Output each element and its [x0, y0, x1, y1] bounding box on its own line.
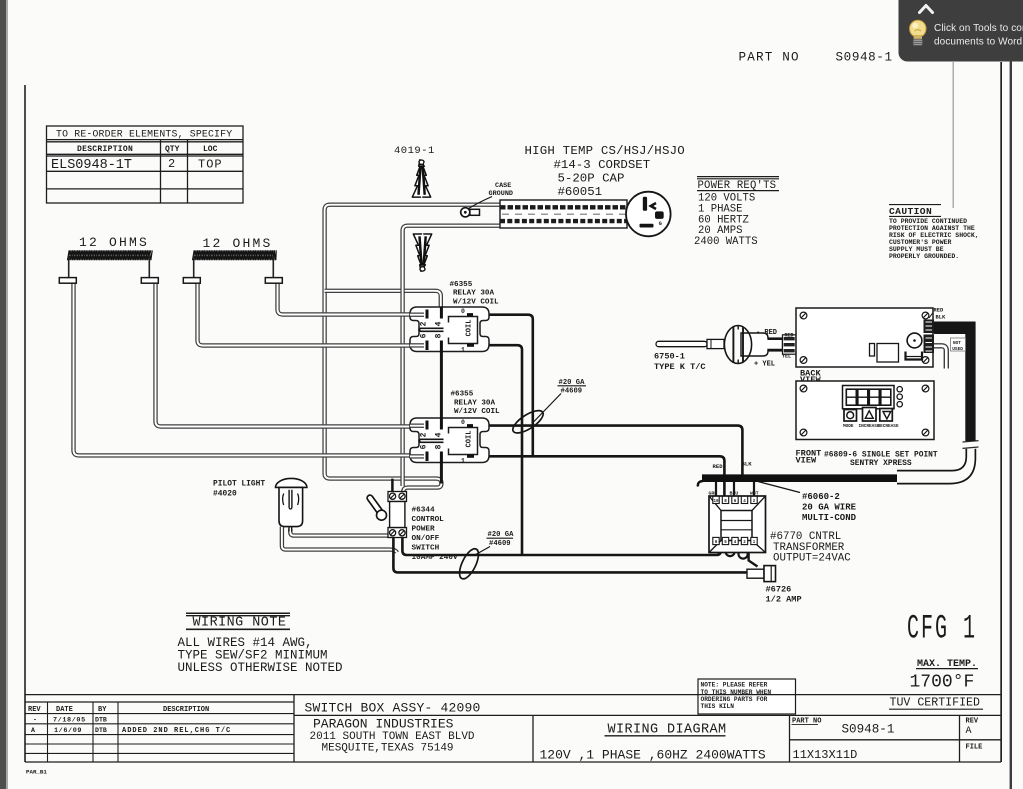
- plug 5-20P cap: [626, 192, 671, 237]
- wire transformer WHT stub: [753, 481, 755, 497]
- svg-text:120V ,1 PHASE ,60HZ 2400WATTS: 120V ,1 PHASE ,60HZ 2400WATTS: [540, 747, 766, 762]
- front panel button MODE: [844, 410, 857, 422]
- wire slack loop A: [510, 406, 547, 437]
- wire W1 cord hot conductor / neutral bus: [325, 205, 500, 493]
- label 6770 CNTRL TRANSFORMER: [770, 531, 851, 564]
- strain relief spike 4019-1 lower (inverted): [413, 233, 431, 271]
- label RED BLK at controller: [929, 307, 946, 320]
- terminal tab R1 left: [59, 256, 76, 283]
- front panel button INCREASE: [863, 408, 877, 422]
- svg-text:BLU: BLU: [730, 491, 739, 497]
- terminal tab R2 right: [265, 256, 282, 283]
- terminal tab R2 left: [183, 256, 200, 283]
- wire W1 branch to relay K1 pin 4: [325, 291, 441, 308]
- svg-text:CASE: CASE: [495, 182, 511, 190]
- svg-text:10: 10: [713, 500, 719, 504]
- svg-text:YEL: YEL: [782, 354, 791, 360]
- wire pilot light left lead: [282, 527, 397, 553]
- revision table text: [28, 706, 231, 735]
- svg-text:RED: RED: [934, 307, 944, 313]
- svg-text:NOTE: PLEASE REFER: NOTE: PLEASE REFER: [701, 682, 768, 689]
- svg-text:RED: RED: [785, 333, 794, 339]
- wire switch bottom-right to transformer: [402, 537, 720, 555]
- strain relief spike 4019-1 upper: [412, 160, 430, 198]
- wire switch top-left feed: [391, 479, 394, 492]
- svg-text:2: 2: [168, 157, 175, 171]
- svg-text:#6355: #6355: [450, 281, 473, 289]
- label TC wires: [754, 329, 802, 368]
- wire relay K1 coil-1 down: [474, 345, 523, 554]
- label relay K2: [451, 391, 501, 417]
- svg-text:NOT: NOT: [953, 341, 961, 346]
- wire element R1 right lead: [156, 284, 413, 427]
- back panel screw TL: [800, 312, 807, 319]
- front panel LEDs: [897, 387, 902, 407]
- svg-text:Click on Tools to cor: Click on Tools to cor: [934, 23, 1023, 34]
- label cordset description: [525, 144, 685, 199]
- svg-text:+ YEL: + YEL: [754, 360, 775, 368]
- svg-text:CAUTION: CAUTION: [889, 206, 932, 217]
- front panel display: [843, 386, 895, 409]
- svg-text:RED: RED: [713, 463, 724, 470]
- wire relay K2 pin8 down to junction: [440, 461, 443, 484]
- resistor element R1 12 OHMS zigzag: [68, 250, 153, 260]
- svg-text:- RED: - RED: [756, 329, 777, 337]
- label REV A FILE: [966, 717, 983, 751]
- note box refer number: [698, 679, 796, 714]
- svg-text:PARAGON INDUSTRIES: PARAGON INDUSTRIES: [313, 716, 454, 731]
- svg-text:DATE: DATE: [56, 706, 73, 714]
- label POWER REQTS block: [694, 177, 779, 248]
- svg-text:1/2 AMP: 1/2 AMP: [766, 595, 802, 605]
- svg-text:RISK OF ELECTRIC SHOCK,: RISK OF ELECTRIC SHOCK,: [889, 232, 979, 239]
- svg-text:DTB: DTB: [95, 727, 107, 734]
- svg-text:GROUND: GROUND: [489, 190, 513, 198]
- svg-text:#14-3 CORDSET: #14-3 CORDSET: [554, 158, 651, 172]
- svg-text:#6355: #6355: [451, 391, 474, 399]
- svg-text:CUSTOMER'S POWER: CUSTOMER'S POWER: [889, 239, 952, 246]
- page right edge line: [1010, 54, 1012, 789]
- label PART NO header: [739, 50, 893, 64]
- svg-text:DTB: DTB: [95, 716, 107, 723]
- frame left border: [24, 85, 26, 762]
- wire W2 cord second conductor: [403, 226, 500, 486]
- svg-text:REV: REV: [28, 706, 41, 714]
- svg-text:DESCRIPTION: DESCRIPTION: [163, 706, 209, 714]
- svg-text:2011 SOUTH TOWN EAST BLVD: 2011 SOUTH TOWN EAST BLVD: [310, 731, 475, 743]
- wire stub into relay K2 pin 2: [410, 424, 424, 428]
- pilot light 4020: [276, 478, 307, 531]
- svg-text:POWER REQ'TS: POWER REQ'TS: [698, 180, 777, 192]
- svg-text:WIRING NOTE: WIRING NOTE: [193, 616, 287, 631]
- svg-text:4019-1: 4019-1: [394, 145, 435, 157]
- cable solid horizontal bundle: [702, 474, 897, 482]
- wire relay K2 coil-1 to transformer RED: [468, 456, 724, 497]
- svg-text:#4609: #4609: [561, 387, 583, 395]
- wire transformer GRN stub: [715, 481, 717, 497]
- label 6809-6 SINGLE SET POINT: [824, 450, 938, 467]
- svg-text:PART NO: PART NO: [739, 50, 800, 64]
- svg-text:S0948-1: S0948-1: [842, 722, 895, 736]
- front panel button labels: [843, 424, 899, 429]
- svg-text:10AMP 240V: 10AMP 240V: [412, 554, 459, 562]
- svg-text:RELAY 30A: RELAY 30A: [454, 399, 495, 407]
- svg-text:PROTECTION AGAINST THE: PROTECTION AGAINST THE: [889, 225, 975, 232]
- front panel button DECREASE: [880, 409, 893, 422]
- svg-text:ORDERING PARTS FOR: ORDERING PARTS FOR: [701, 696, 768, 703]
- svg-text:MODE: MODE: [843, 424, 854, 429]
- label WIRING NOTE block: [178, 613, 343, 675]
- svg-text:A: A: [966, 726, 972, 737]
- switch 6344 body: [388, 492, 407, 538]
- svg-text:#6344: #6344: [412, 507, 435, 515]
- svg-text:REV: REV: [966, 717, 979, 725]
- NOT USED tag: [951, 338, 966, 352]
- svg-text:S0948-1: S0948-1: [836, 50, 893, 64]
- svg-text:GRN: GRN: [709, 491, 718, 497]
- label wiring diagram: [605, 723, 727, 738]
- svg-text:6750-1: 6750-1: [654, 352, 685, 362]
- controller front view panel: [796, 381, 934, 440]
- svg-text:1700°F: 1700°F: [910, 672, 975, 692]
- wire element R2 right lead: [278, 284, 413, 315]
- wire transformer BLU stub: [733, 481, 735, 497]
- svg-text:#60051: #60051: [558, 185, 603, 199]
- label TUV CERTIFIED: [889, 697, 983, 710]
- svg-text:documents to Word: documents to Word: [934, 37, 1022, 48]
- label MAX TEMP: [916, 659, 978, 670]
- back panel terminal strip lower: [924, 335, 935, 354]
- svg-text:PAR_B1: PAR_B1: [26, 768, 47, 775]
- back panel piezo circle: [906, 333, 923, 359]
- wire switch bottom-left to fuse line: [393, 537, 747, 572]
- svg-text:1/6/09: 1/6/09: [54, 727, 82, 735]
- wire transformer pin to fuse: [749, 545, 758, 567]
- svg-text:HIGH TEMP CS/HSJ/HSJO: HIGH TEMP CS/HSJ/HSJO: [525, 144, 685, 158]
- label pilot light: [213, 479, 265, 498]
- back panel relay box: [877, 344, 899, 363]
- label paragon industries: [310, 716, 475, 754]
- title block lines: [25, 695, 1001, 762]
- switch screw BL: [390, 530, 396, 536]
- wire stub into relay K1 pin 2: [410, 313, 424, 317]
- svg-text:CFG 1: CFG 1: [907, 611, 977, 649]
- resistor element R2 12 OHMS zigzag: [193, 250, 277, 260]
- svg-text:CONTROL: CONTROL: [412, 516, 445, 524]
- svg-text:11X13X11D: 11X13X11D: [793, 748, 858, 762]
- svg-text:SENTRY XPRESS: SENTRY XPRESS: [850, 459, 912, 468]
- switch screw TL: [390, 493, 396, 499]
- label 6060-2 cable w/ leader: [758, 482, 857, 523]
- svg-text:POWER: POWER: [412, 526, 435, 534]
- wire transformer bottom U-loop 1: [726, 545, 735, 556]
- svg-text:MESQUITE,TEXAS 75149: MESQUITE,TEXAS 75149: [322, 743, 454, 755]
- relay K1 (#6355 RELAY 30A): [410, 307, 489, 354]
- switch screw BR: [399, 530, 405, 536]
- front panel screw BR: [922, 429, 929, 436]
- cordset cable body: [500, 200, 627, 228]
- svg-text:MULTI-COND: MULTI-COND: [802, 513, 857, 523]
- back panel screw TR: [922, 312, 929, 319]
- svg-text:PILOT LIGHT: PILOT LIGHT: [213, 479, 265, 488]
- svg-text:USED: USED: [952, 347, 963, 352]
- cable stub wire to connector: [934, 346, 946, 369]
- svg-text:TO RE-ORDER ELEMENTS, SPECIFY: TO RE-ORDER ELEMENTS, SPECIFY: [56, 129, 232, 140]
- svg-text:FILE: FILE: [966, 743, 983, 751]
- svg-text:OUTPUT=24VAC: OUTPUT=24VAC: [773, 552, 851, 564]
- svg-text:TO PROVIDE CONTINUED: TO PROVIDE CONTINUED: [889, 218, 967, 225]
- thermocouple 6750-1 TYPE K probe: [656, 339, 724, 348]
- svg-text:ON/OFF: ON/OFF: [412, 535, 440, 543]
- svg-text:DESCRIPTION: DESCRIPTION: [77, 145, 133, 154]
- label 20 GA 4609 lower w/ leader: [474, 531, 514, 555]
- back panel screw BR: [922, 357, 929, 364]
- label CASE GROUND w/ leader: [469, 182, 513, 209]
- label switch 6344: [412, 507, 459, 562]
- svg-text:G: G: [659, 221, 662, 227]
- transformer bottom terminals: [713, 537, 757, 545]
- svg-text:LOC: LOC: [203, 145, 218, 154]
- scan fold line: [953, 62, 954, 208]
- frame right border: [1000, 62, 1002, 762]
- front panel screw TR: [922, 385, 929, 392]
- cable corner tube: [897, 449, 975, 484]
- wire stub into relay K1 pin 6: [410, 343, 424, 347]
- svg-text:SWITCH BOX ASSY- 42090: SWITCH BOX ASSY- 42090: [305, 700, 481, 715]
- svg-text:ELS0948-1T: ELS0948-1T: [51, 158, 132, 173]
- svg-text:W/12V COIL: W/12V COIL: [454, 408, 500, 416]
- wire slack loop B: [456, 546, 483, 581]
- front panel screw BL: [800, 429, 807, 436]
- wire element R2 left lead: [198, 284, 413, 346]
- svg-text:BLK: BLK: [742, 460, 753, 467]
- re-order elements table: [47, 126, 244, 203]
- wire stub into relay K2 pin 6: [410, 454, 424, 458]
- controller back view panel: [796, 308, 933, 367]
- wire pilot light center lead: [290, 529, 391, 536]
- transformer core: [709, 496, 766, 553]
- cable break marks: [963, 441, 979, 449]
- svg-text:PROPERLY GROUNDED.: PROPERLY GROUNDED.: [889, 253, 959, 260]
- cable solid vertical and top elbow: [934, 322, 976, 442]
- svg-text:BLK: BLK: [936, 315, 946, 321]
- scanner left edge bar: [0, 0, 6, 789]
- svg-text:#4020: #4020: [213, 489, 237, 498]
- svg-text:12 OHMS: 12 OHMS: [79, 235, 149, 250]
- revision table: [25, 702, 294, 762]
- svg-text:BY: BY: [98, 706, 107, 714]
- thermocouple connector body: [724, 326, 796, 364]
- label fuse: [766, 585, 802, 605]
- svg-text:#6726: #6726: [766, 585, 792, 595]
- svg-text:DECREASE: DECREASE: [878, 424, 899, 429]
- svg-text:2400 WATTS: 2400 WATTS: [694, 236, 758, 248]
- back panel terminal strip upper: [924, 320, 935, 334]
- wire relay K1 pin8 to relay K2 pin4: [440, 351, 443, 419]
- svg-text:5-20P CAP: 5-20P CAP: [558, 171, 625, 185]
- tooltip popup: [899, 0, 1023, 62]
- svg-text:12 OHMS: 12 OHMS: [203, 236, 273, 251]
- svg-text:A: A: [31, 727, 35, 734]
- cable end curl: [698, 481, 703, 487]
- svg-text:RELAY 30A: RELAY 30A: [453, 290, 494, 298]
- label thermocouple: [654, 352, 706, 372]
- label FRONT VIEW: [796, 449, 822, 466]
- front panel screw TL: [800, 385, 807, 392]
- svg-text:-: -: [33, 716, 37, 723]
- svg-text:W/12V COIL: W/12V COIL: [453, 298, 499, 306]
- svg-text:TOP: TOP: [198, 158, 223, 172]
- svg-text:SWITCH: SWITCH: [412, 545, 440, 553]
- label relay K1: [450, 281, 500, 307]
- wire transformer bottom U-loop 2: [739, 545, 748, 559]
- svg-text:#4609: #4609: [489, 540, 511, 548]
- svg-text:QTY: QTY: [165, 145, 180, 154]
- terminal tab R1 right: [141, 256, 158, 283]
- label 20 GA 4609 upper w/ leader: [534, 379, 586, 422]
- label part no cell: [792, 717, 895, 736]
- label CAUTION block: [889, 205, 979, 260]
- svg-text:THIS KILN: THIS KILN: [701, 703, 735, 710]
- back panel slot: [870, 344, 875, 357]
- label BACK VIEW: [800, 368, 821, 385]
- case ground ring terminal: [461, 208, 480, 217]
- svg-text:SUPPLY MUST BE: SUPPLY MUST BE: [889, 246, 944, 253]
- wire relay K2 coil-0 to controller BLK: [466, 426, 742, 478]
- wire element R1 left lead: [74, 284, 411, 456]
- svg-text:VIEW: VIEW: [796, 455, 817, 465]
- svg-text:#6060-2: #6060-2: [802, 492, 840, 502]
- svg-text:20 GA WIRE: 20 GA WIRE: [802, 502, 857, 512]
- svg-text:TYPE K T/C: TYPE K T/C: [654, 362, 706, 372]
- svg-text:TUV CERTIFIED: TUV CERTIFIED: [890, 697, 980, 710]
- label transformer wire colors: [709, 491, 759, 497]
- svg-text:UNLESS OTHERWISE NOTED: UNLESS OTHERWISE NOTED: [178, 661, 343, 675]
- transformer top terminals: [713, 496, 757, 504]
- svg-text:ADDED 2ND REL,CHG T/C: ADDED 2ND REL,CHG T/C: [122, 727, 231, 735]
- switch toggle lever: [370, 498, 387, 520]
- relay K2 (#6355 RELAY 30A): [410, 418, 489, 465]
- back panel screw BL: [800, 357, 807, 364]
- svg-text:WHT: WHT: [750, 491, 759, 497]
- switch screw TR: [399, 493, 405, 499]
- wire relay K1 coil-0 to relay K2: [472, 315, 533, 456]
- svg-text:7/18/05: 7/18/05: [53, 716, 86, 724]
- fuse 6726 1/2 AMP: [747, 566, 776, 582]
